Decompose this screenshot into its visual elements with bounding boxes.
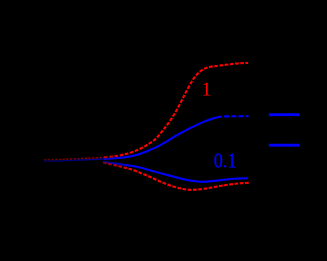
svg-text:1: 1 xyxy=(201,79,211,101)
svg-text:0.1: 0.1 xyxy=(214,148,237,172)
